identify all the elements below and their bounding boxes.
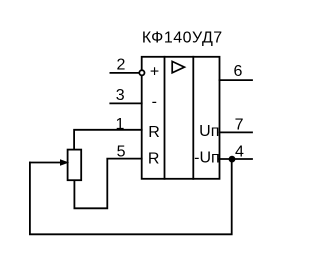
op-amp U1 body <box>142 57 220 179</box>
svg-text:R: R <box>148 124 160 141</box>
potentiometer R1 body <box>68 150 82 181</box>
wire pin 1 to potentiometer top <box>74 130 142 150</box>
op-amp U1 right divider <box>192 57 194 179</box>
op-amp U1 left divider <box>164 57 166 179</box>
wire pin 7 <box>220 131 253 133</box>
svg-text:6: 6 <box>233 63 242 80</box>
svg-text:+: + <box>150 63 159 80</box>
pin 2 terminal circle <box>139 70 144 75</box>
wire pin 4 <box>220 158 253 160</box>
svg-text:-: - <box>152 93 157 110</box>
wire wiper arrow shaft <box>30 162 61 164</box>
wire pin 5 to potentiometer bottom <box>74 159 141 209</box>
junction dot node at pin 4 <box>229 156 236 163</box>
wire pin 2 <box>110 72 139 74</box>
svg-text:-Uп: -Uп <box>194 149 220 166</box>
svg-text:КФ140УД7: КФ140УД7 <box>142 29 223 46</box>
svg-text:5: 5 <box>117 144 126 161</box>
wiper arrowhead <box>60 160 68 166</box>
svg-text:1: 1 <box>116 116 125 133</box>
svg-text:4: 4 <box>235 144 244 161</box>
wire pin 3 <box>110 102 141 104</box>
svg-text:R: R <box>148 151 160 168</box>
svg-text:Uп: Uп <box>199 123 219 140</box>
svg-text:3: 3 <box>116 87 125 104</box>
wire feedback loop: left riser, bottom wire, right riser to pin 4 <box>30 159 232 234</box>
svg-text:2: 2 <box>117 56 126 73</box>
op-amp U1 triangle symbol <box>172 61 184 72</box>
wire pin 6 <box>220 79 253 81</box>
svg-text:7: 7 <box>235 117 244 134</box>
